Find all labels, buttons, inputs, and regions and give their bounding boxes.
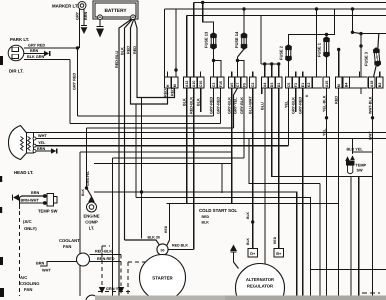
- svg-text:BATTERY: BATTERY: [104, 8, 127, 14]
- svg-text:A10: A10: [192, 81, 196, 88]
- label BLK battery: [120, 47, 124, 55]
- temp switch S1: [43, 194, 57, 207]
- svg-text:D+: D+: [250, 252, 256, 256]
- label BRN-WHT: [21, 199, 40, 203]
- svg-text:BLU YEL: BLU YEL: [347, 148, 364, 152]
- svg-text:50: 50: [161, 249, 165, 253]
- svg-text:HEAD LT.: HEAD LT.: [14, 170, 33, 175]
- label RED below strip 1: [163, 89, 167, 97]
- wire A5 GRY-BLK: [231, 88, 233, 204]
- ground temp switch: [13, 194, 20, 201]
- label WHT-BLK A18: [368, 96, 372, 114]
- svg-text:M: M: [173, 84, 177, 87]
- svg-text:COLD START SOL: COLD START SOL: [199, 208, 238, 213]
- label GRY RED: [28, 44, 45, 48]
- lamp engine compartment: [87, 196, 97, 213]
- label BLU YEL: [347, 148, 364, 152]
- label BLK GRN: [27, 55, 45, 59]
- wire coolant RED-BLK: [90, 254, 122, 256]
- label YEL: [38, 141, 46, 145]
- bus B4 stub: [359, 32, 386, 35]
- terminal B+: [274, 249, 284, 258]
- label A/C ONLY: [23, 219, 37, 231]
- lamp head light: [9, 126, 37, 160]
- wire K2 feed: [316, 9, 318, 77]
- edge artifact 4: [0, 257, 3, 265]
- lamp park light: [8, 45, 24, 61]
- wire F15 GRY-RED riser: [220, 88, 222, 124]
- node y192 branch: [140, 190, 143, 193]
- fuse F13: [210, 32, 217, 50]
- fuse F2: [285, 44, 292, 62]
- wire temp sw BRN: [19, 196, 43, 198]
- svg-text:YEL: YEL: [284, 100, 288, 108]
- wire run y163: [94, 163, 232, 165]
- svg-text:LT.: LT.: [89, 226, 95, 231]
- wire fuse1 to strip: [326, 57, 328, 77]
- wire fuse2 feed: [289, 35, 327, 46]
- label BRN park: [30, 49, 38, 53]
- label RED below strip 2: [170, 88, 174, 96]
- svg-text:PARK LT.: PARK LT.: [10, 37, 29, 42]
- svg-text:GRN-YEL: GRN-YEL: [106, 287, 124, 291]
- label BLK cold start: [202, 221, 210, 225]
- head light label: [14, 170, 33, 175]
- label FUSE 3: [364, 51, 369, 66]
- bottom right dashes: [362, 292, 380, 294]
- label RED B4: [334, 96, 338, 104]
- svg-text:GRY: GRY: [75, 11, 79, 20]
- svg-text:BLU: BLU: [260, 102, 264, 110]
- svg-text:WHT: WHT: [38, 134, 47, 138]
- wire B4 feed: [338, 50, 340, 78]
- cold start sol label: [199, 208, 238, 213]
- wire run y192: [94, 192, 297, 296]
- coolant fan label: [59, 238, 80, 249]
- ground park light: [44, 51, 50, 57]
- label K below strip: [305, 94, 309, 97]
- svg-text:MARKER LT.: MARKER LT.: [52, 4, 78, 9]
- label BRN-RED: [97, 257, 115, 261]
- svg-text:C3: C3: [212, 83, 216, 88]
- wire temp sw BRN-WHT: [20, 198, 43, 204]
- dashed AC wire right: [118, 255, 124, 294]
- svg-text:A12: A12: [185, 81, 189, 88]
- marker light label: [52, 4, 78, 9]
- wire head BRN: [36, 150, 51, 152]
- svg-text:E1: E1: [301, 83, 305, 87]
- wire hang 358: [358, 177, 360, 297]
- svg-text:F15: F15: [219, 81, 223, 87]
- svg-text:GRY-RED: GRY-RED: [209, 97, 213, 114]
- wire fuse13 feed: [203, 3, 214, 34]
- svg-text:WHT: WHT: [42, 269, 51, 273]
- label BLK C15: [197, 98, 201, 106]
- battery B1: [93, 1, 138, 19]
- wire D2 to B+: [278, 88, 280, 249]
- svg-text:BLK: BLK: [202, 221, 210, 225]
- svg-text:A5: A5: [230, 83, 234, 88]
- svg-text:D2: D2: [277, 83, 281, 88]
- svg-text:C5: C5: [287, 83, 291, 88]
- ground marker light: [81, 22, 88, 34]
- label GRY-BLK A5: [228, 97, 232, 114]
- label BLK A12: [183, 98, 187, 106]
- label RED cold start: [202, 215, 210, 219]
- fuse F3: [373, 47, 382, 67]
- wire C2 BLU-WHT to D+: [252, 88, 254, 249]
- label GRY-BLK F3: [292, 97, 296, 114]
- wire fuse2 to strip: [288, 61, 290, 77]
- label BLK 30: [148, 236, 160, 240]
- label WHT coolant: [42, 269, 51, 273]
- label YEL below splice: [322, 128, 326, 136]
- label FUSE 1: [317, 42, 322, 57]
- svg-text:BRN: BRN: [36, 262, 44, 266]
- wire E4 feed: [360, 34, 362, 77]
- svg-text:FAN: FAN: [24, 287, 32, 292]
- battery terminal negative: [98, 15, 103, 20]
- svg-text:F3: F3: [294, 83, 298, 87]
- svg-text:BLK: BLK: [197, 98, 201, 106]
- label RED 2: [133, 46, 137, 54]
- motor starter: [140, 255, 186, 300]
- label GRN-YEL: [106, 287, 124, 291]
- ac fan label: [20, 275, 40, 292]
- wire starter RED-BLK lead: [168, 249, 194, 251]
- svg-text:RED BLK: RED BLK: [172, 244, 188, 248]
- label RED 1: [126, 46, 130, 54]
- svg-text:BRN-RED: BRN-RED: [97, 257, 115, 261]
- label FUSE 14: [234, 31, 239, 48]
- wire hang 141: [141, 98, 143, 239]
- label WHT: [38, 134, 47, 138]
- node fuse14 split: [236, 59, 239, 62]
- wire engine lamp drop: [87, 188, 92, 197]
- svg-text:BLK: BLK: [246, 237, 250, 245]
- wire D3 riser: [272, 88, 373, 177]
- wire A4 tick: [261, 88, 263, 94]
- svg-text:RED: RED: [202, 215, 210, 219]
- wire coolant BRN-RED: [90, 261, 122, 263]
- svg-text:BLK: BLK: [81, 188, 85, 196]
- fuse F1: [323, 36, 330, 58]
- wire bottom right bus: [311, 269, 386, 271]
- svg-text:C2: C2: [251, 83, 255, 88]
- svg-text:FUSE 3: FUSE 3: [364, 51, 369, 66]
- connector strip C100: [165, 77, 383, 88]
- label GRY-RED C3: [209, 97, 213, 114]
- label BRN: [84, 12, 88, 20]
- svg-text:RED: RED: [273, 236, 277, 244]
- wire run y158: [113, 158, 245, 296]
- wire C7 GRY-YEL riser: [234, 88, 238, 128]
- wire C15 BLK: [200, 88, 202, 112]
- label BRN temp sw: [31, 191, 39, 195]
- label BRN coolant: [36, 262, 44, 266]
- battery terminal positive: [131, 15, 136, 20]
- wire marker BRN lead: [83, 9, 85, 22]
- bus B2: [165, 8, 386, 10]
- svg-text:FUSE 2: FUSE 2: [279, 45, 284, 60]
- svg-text:YEL-BLK: YEL-BLK: [322, 95, 326, 112]
- svg-text:STARTER: STARTER: [152, 276, 173, 281]
- wire battery RED 2: [134, 19, 174, 98]
- node E4 feed: [359, 44, 362, 47]
- wire A12 BLK: [186, 88, 188, 204]
- svg-text:RED-BLU: RED-BLU: [115, 51, 119, 68]
- svg-text:ONLY): ONLY): [24, 226, 37, 231]
- svg-text:GRY-BLK: GRY-BLK: [228, 97, 232, 114]
- label GRY-RED F15: [216, 97, 220, 114]
- wire C3 GRY-RED riser: [213, 88, 215, 116]
- wire E4 tick below: [360, 88, 362, 94]
- wire fuse13 branch F15: [214, 61, 222, 78]
- node A18 splice: [371, 116, 374, 119]
- label GRY-YEL C7: [233, 97, 237, 114]
- wire F5 riser: [243, 88, 245, 158]
- wire starter 30 lead: [125, 240, 160, 245]
- node D4 feed top: [351, 7, 354, 10]
- svg-text:FAN: FAN: [63, 244, 71, 249]
- svg-text:REGULATOR: REGULATOR: [247, 284, 273, 289]
- wire H box feed: [164, 9, 166, 77]
- svg-text:RED: RED: [163, 89, 167, 97]
- svg-text:RED: RED: [164, 225, 168, 233]
- label RED alt: [273, 236, 277, 244]
- svg-text:GRY-BLK: GRY-BLK: [292, 97, 296, 114]
- svg-text:C15: C15: [199, 81, 203, 88]
- temp sw right label: [356, 164, 367, 173]
- svg-text:A18: A18: [370, 81, 374, 88]
- svg-text:FUSE 1: FUSE 1: [317, 42, 322, 57]
- svg-text:YEL: YEL: [38, 141, 46, 145]
- wire headlight WHT run: [34, 138, 386, 140]
- engine lamp label: [83, 214, 99, 231]
- node park GRY RED to marker: [76, 46, 79, 49]
- wire hang 320 upper: [319, 184, 321, 204]
- svg-text:GRY-BLK: GRY-BLK: [240, 97, 244, 114]
- dashed AC wire left: [99, 246, 110, 294]
- svg-text:GRY-RED: GRY-RED: [216, 97, 220, 114]
- wire fuse14 feed: [242, 7, 245, 33]
- wire fuse3 to strip: [374, 66, 377, 77]
- svg-text:GRY-RED: GRY-RED: [299, 97, 303, 114]
- wire D4 BLU-YEL: [352, 139, 354, 155]
- lamp marker light: [78, 2, 86, 10]
- edge artifact 3: [0, 207, 2, 213]
- svg-text:A15: A15: [325, 81, 329, 88]
- bus B1: [194, 2, 386, 4]
- wire A12 feed: [186, 16, 188, 78]
- wire fuse1 feed: [327, 9, 335, 35]
- svg-text:RED-BLK: RED-BLK: [190, 97, 194, 114]
- wire cold start RED drop: [167, 204, 170, 246]
- wire GRY-RED run 1: [78, 48, 214, 116]
- wire B4 RED: [338, 88, 340, 296]
- label BLU-WHT C2: [249, 96, 253, 114]
- svg-text:COMP: COMP: [85, 220, 98, 225]
- wire fuse3 feed: [377, 34, 380, 48]
- temp switch label: [38, 209, 58, 214]
- label GRY RED vert: [73, 73, 77, 90]
- wire M2 feed: [174, 9, 177, 77]
- svg-text:BLK: BLK: [183, 98, 187, 106]
- svg-text:COOLING: COOLING: [20, 281, 40, 286]
- wire run y152: [80, 152, 232, 296]
- wire A15 YEL-BLK: [326, 88, 328, 296]
- wire fuse14 branch F5: [238, 61, 245, 78]
- svg-text:BRN: BRN: [30, 49, 38, 53]
- wire E1 GRY-RED: [302, 88, 304, 296]
- svg-text:DIR LT.: DIR LT.: [9, 69, 24, 74]
- dir light label: [9, 69, 24, 74]
- svg-text:BRN-WHT: BRN-WHT: [21, 199, 40, 203]
- label RED-BLK: [95, 250, 112, 254]
- svg-text:BLK 30: BLK 30: [148, 236, 160, 240]
- alternator A1: [236, 264, 285, 300]
- svg-text:BRN: BRN: [31, 191, 39, 195]
- svg-text:M: M: [337, 84, 341, 87]
- label BRN head: [37, 147, 45, 151]
- bus A4-D3-D2 feed: [261, 16, 280, 78]
- wire battery BLK: [125, 19, 133, 240]
- svg-text:RED: RED: [170, 88, 174, 96]
- svg-text:B+: B+: [276, 252, 282, 256]
- motor ac cooling fan: [86, 295, 98, 300]
- wire hang 136: [135, 104, 137, 198]
- node A15 splice: [325, 116, 328, 119]
- svg-text:WHT-BLK: WHT-BLK: [368, 96, 372, 114]
- motor coolant fan: [77, 253, 90, 266]
- wire fuse14 to strip: [238, 49, 245, 77]
- wire marker GRY lead: [79, 9, 81, 48]
- svg-text:BRN: BRN: [37, 147, 45, 151]
- solenoid 50 terminal: [157, 244, 168, 255]
- svg-text:B2: B2: [378, 83, 382, 88]
- svg-text:ALTERNATOR: ALTERNATOR: [246, 277, 274, 282]
- bus B3: [187, 15, 386, 17]
- label RED-BLK A10: [190, 97, 194, 114]
- label GRY: [75, 11, 79, 20]
- park light label: [10, 37, 29, 42]
- wire park BRN: [24, 53, 44, 55]
- svg-text:SW: SW: [357, 169, 364, 173]
- svg-text:RED-BLK: RED-BLK: [95, 250, 112, 254]
- node B4 feed: [337, 48, 340, 51]
- wire GRY-RED run 2: [70, 123, 221, 125]
- terminal D+: [248, 249, 258, 258]
- svg-text:FUSE 14: FUSE 14: [234, 31, 239, 48]
- wire A10 RED-BLK: [193, 88, 195, 250]
- connector strip upper ticks: [168, 72, 380, 78]
- wire C5 YEL riser: [288, 88, 290, 146]
- wire headlight YEL run: [34, 145, 289, 147]
- label GRN-YEL engine lamp: [86, 171, 90, 186]
- label BLK engine lamp: [81, 188, 85, 196]
- wire park BLK GRN: [24, 60, 70, 124]
- label FUSE 13: [204, 31, 209, 48]
- svg-text:BLK: BLK: [246, 211, 250, 219]
- node engine lamp junction: [85, 186, 88, 189]
- wire hang 351: [350, 177, 352, 297]
- svg-text:A4: A4: [263, 83, 267, 88]
- edge artifact 2: [0, 176, 2, 182]
- svg-text:A/C: A/C: [20, 275, 27, 280]
- wire A10 feed: [193, 3, 195, 78]
- label RED-BLU: [115, 51, 119, 68]
- label BLK alt: [246, 211, 250, 245]
- label GRY-RED E1: [299, 97, 303, 114]
- svg-text:H: H: [166, 84, 170, 87]
- wire run y203: [167, 203, 339, 205]
- ground alternator: [230, 245, 239, 269]
- svg-text:COOLANT: COOLANT: [59, 238, 80, 243]
- wire coolant BRN-WHT: [40, 262, 77, 267]
- wire fuse13 to strip: [213, 49, 215, 77]
- svg-text:GRY-YEL: GRY-YEL: [233, 97, 237, 114]
- wire run y197: [136, 198, 311, 297]
- wire headlight top run: [33, 132, 386, 134]
- svg-text:BRN: BRN: [84, 12, 88, 20]
- node fuse13 split: [212, 59, 215, 62]
- svg-text:BLK GRN: BLK GRN: [27, 55, 45, 59]
- ground battery: [96, 20, 104, 38]
- wire temp sw link: [353, 151, 373, 153]
- dashed AC wire inner: [128, 262, 148, 296]
- wire battery RED-BLU: [119, 19, 132, 296]
- wire park GRY RED: [24, 47, 77, 49]
- edge artifact 1: [0, 56, 3, 65]
- label RED BLK starter: [172, 244, 188, 248]
- wire GRY-YEL run: [87, 128, 234, 188]
- svg-text:ENGINE: ENGINE: [83, 214, 99, 219]
- label GRY-BLK F5: [240, 97, 244, 114]
- svg-text:D3: D3: [270, 83, 274, 88]
- svg-text:F5: F5: [243, 83, 247, 87]
- label RED drop: [164, 225, 168, 233]
- wire mid drop 222: [221, 164, 223, 194]
- svg-text:K2: K2: [307, 83, 311, 88]
- wire battery RED 1: [131, 19, 168, 104]
- label YEL-BLK A15: [322, 95, 326, 112]
- label BLU: [260, 102, 264, 110]
- svg-text:BLK: BLK: [120, 47, 124, 55]
- ground head light: [51, 148, 57, 154]
- wire mid drop 249: [249, 139, 320, 184]
- svg-text:GRY RED: GRY RED: [28, 44, 45, 48]
- svg-text:(A/C: (A/C: [23, 219, 32, 224]
- node fuse1 top: [325, 33, 328, 36]
- label FUSE 2: [279, 45, 284, 60]
- temp switch S2: [345, 155, 355, 174]
- svg-text:FUSE 13: FUSE 13: [204, 31, 209, 48]
- node D4 feed mid: [351, 31, 354, 34]
- node alt BLK splice: [251, 220, 254, 223]
- wire D4 feed: [353, 9, 362, 34]
- wire hang 320: [319, 204, 321, 297]
- node bus B1: [201, 1, 204, 4]
- bottom scan band: [95, 296, 386, 300]
- svg-text:B4: B4: [345, 83, 349, 88]
- svg-text:RED: RED: [334, 96, 338, 104]
- svg-text:BLU-WHT: BLU-WHT: [249, 96, 253, 114]
- svg-text:C7: C7: [236, 83, 240, 88]
- label YEL C5: [284, 100, 288, 108]
- svg-text:TEMP SW: TEMP SW: [38, 209, 58, 214]
- fuse F14: [241, 32, 248, 50]
- svg-text:TEMP: TEMP: [356, 164, 367, 168]
